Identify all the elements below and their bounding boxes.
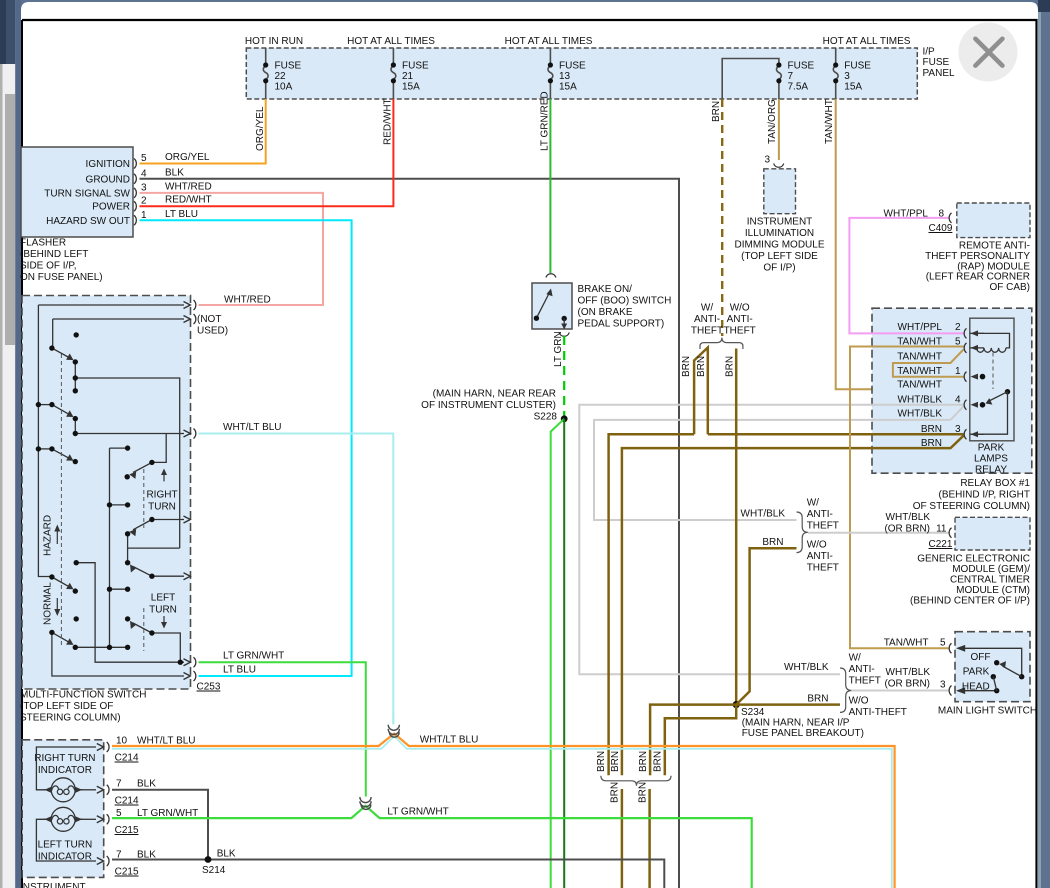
svg-text:BRN: BRN (681, 356, 692, 377)
svg-text:CENTRAL TIMER: CENTRAL TIMER (950, 574, 1030, 585)
left rail (38, 305, 52, 577)
svg-text:RIGHT: RIGHT (146, 490, 177, 501)
svg-text:TAN/WHT: TAN/WHT (824, 99, 835, 144)
svg-text:15A: 15A (559, 82, 577, 93)
lamp2 right lead to pin5 (81, 818, 96, 820)
inline connector chevrons WHT/LT BLU (388, 725, 399, 731)
generic electronic module (GEM) box (955, 517, 1030, 550)
svg-text:C221: C221 (929, 539, 953, 550)
GEM option brace (797, 512, 808, 553)
svg-text:11: 11 (936, 524, 947, 535)
svg-text:REMOTE ANTI-: REMOTE ANTI- (959, 241, 1030, 252)
main light switch option brace (840, 668, 851, 712)
svg-text:7: 7 (788, 71, 794, 82)
brake on/off (BOO) switch box (532, 283, 572, 329)
svg-text:ANTI-: ANTI- (807, 509, 833, 520)
svg-text:FUSE: FUSE (923, 57, 950, 68)
svg-text:C214: C214 (115, 796, 139, 807)
svg-text:(BEHIND I/P, RIGHT: (BEHIND I/P, RIGHT (939, 490, 1031, 501)
svg-text:RED/WHT: RED/WHT (165, 195, 212, 206)
wire RED/WHT flasher pin2 to fuse21 (140, 99, 394, 206)
wire WHT/LT BLU pale cyan shadow horizontal (112, 736, 892, 888)
svg-text:WHT/RED: WHT/RED (224, 295, 271, 306)
indicator pin arcs (107, 742, 109, 866)
svg-text:TAN/WHT: TAN/WHT (897, 352, 942, 363)
svg-text:RELAY BOX #1: RELAY BOX #1 (960, 478, 1030, 489)
svg-text:BRN: BRN (638, 751, 649, 772)
svg-text:BRAKE ON/: BRAKE ON/ (578, 284, 633, 295)
wire LT GRN/WHT bottom run (112, 806, 752, 888)
svg-text:WHT/BLK: WHT/BLK (886, 512, 931, 523)
svg-text:BRN: BRN (921, 438, 942, 449)
hazard contact arm 1 (52, 348, 69, 357)
svg-text:HEAD: HEAD (962, 682, 990, 693)
svg-text:INSTRUMENT: INSTRUMENT (20, 882, 86, 888)
svg-text:PARK: PARK (963, 667, 990, 678)
svg-text:BRN: BRN (807, 694, 828, 705)
svg-text:5: 5 (141, 153, 147, 164)
flasher box (21, 147, 133, 237)
wire BRN S234 left drop 2 (665, 705, 736, 776)
hazard arm 3 row (38, 448, 52, 450)
svg-text:BLK: BLK (217, 849, 236, 860)
svg-text:OF I/P): OF I/P) (763, 263, 795, 274)
wire BLK lamp1 to S214 (112, 790, 208, 860)
MFS mode dashed axes (61, 354, 143, 651)
wire DK GRN from S228 straight down (563, 419, 565, 888)
wire LT GRN dashed BOO to S228 (563, 336, 565, 419)
wire LT BLU flasher pin1 to MFS LT BLU pin (140, 220, 352, 676)
svg-text:ANTI-: ANTI- (849, 664, 875, 675)
svg-text:FUSE: FUSE (275, 61, 302, 72)
multi-function switch box (22, 296, 191, 690)
left scrollbar thumb (5, 94, 15, 345)
wire BRN dashed fuse7 feed down to anti-theft option brace (721, 99, 723, 336)
BOO top connector arc (546, 274, 556, 278)
svg-text:OFF: OFF (971, 652, 991, 663)
svg-text:2: 2 (141, 196, 147, 207)
svg-text:PEDAL SUPPORT): PEDAL SUPPORT) (578, 319, 665, 330)
svg-text:TAN/WHT: TAN/WHT (897, 366, 942, 377)
svg-text:GROUND: GROUND (86, 174, 130, 185)
wire LT GRN/RED fuse13 down to BOO switch (549, 99, 551, 273)
fuse F13 15A (548, 48, 553, 99)
svg-text:3: 3 (955, 424, 961, 435)
relay coil (970, 333, 1010, 348)
wire WHT/LT BLU orange highlight horizontal (112, 734, 895, 888)
svg-text:FUSE: FUSE (788, 61, 815, 72)
svg-text:2: 2 (955, 322, 961, 333)
svg-text:(LEFT REAR CORNER: (LEFT REAR CORNER (926, 272, 1030, 283)
svg-text:BRN: BRN (610, 782, 621, 803)
svg-text:FUSE: FUSE (402, 61, 429, 72)
svg-text:TAN/WHT: TAN/WHT (897, 380, 942, 391)
svg-text:(ON BRAKE: (ON BRAKE (578, 307, 633, 318)
wire BLK flasher pin4 ground, right then down full height (140, 179, 680, 888)
svg-text:BRN: BRN (711, 101, 722, 122)
svg-text:MODULE (CTM): MODULE (CTM) (956, 585, 1030, 596)
svg-text:PARK: PARK (978, 443, 1005, 454)
turn indicator cluster box (22, 740, 104, 878)
svg-text:FUSE PANEL BREAKOUT): FUSE PANEL BREAKOUT) (742, 728, 864, 739)
svg-text:3: 3 (940, 680, 946, 691)
svg-text:S228: S228 (534, 412, 558, 423)
svg-text:LT GRN/WHT: LT GRN/WHT (223, 651, 284, 662)
left slate band between scrollbar and modal (15, 0, 21, 888)
svg-text:ORG/YEL: ORG/YEL (165, 152, 210, 163)
svg-text:FUSE: FUSE (844, 61, 871, 72)
MFS contact dots (36, 332, 183, 665)
wire TAN/WHT fuse3 down and right to relay pin1 (836, 99, 964, 389)
svg-text:13: 13 (559, 71, 571, 82)
svg-text:WHT/LT BLU: WHT/LT BLU (420, 735, 479, 746)
relay box #1 dashed enclosure (872, 308, 1032, 473)
BOO bottom connector arc (559, 333, 569, 337)
svg-text:HOT AT ALL TIMES: HOT AT ALL TIMES (505, 36, 593, 47)
svg-text:(BEHIND LEFT: (BEHIND LEFT (20, 249, 88, 260)
right turn indicator lamp (51, 778, 75, 802)
svg-text:7: 7 (116, 779, 122, 790)
svg-text:WHT/BLK: WHT/BLK (784, 662, 829, 673)
svg-text:ANTI-: ANTI- (694, 314, 720, 325)
svg-text:HAZARD: HAZARD (43, 515, 54, 556)
hazard output to LT GRN/WHT pin (76, 563, 184, 663)
anti-theft option brace at BOO area (700, 338, 743, 349)
main light switch box (955, 632, 1030, 702)
wire WHT/BLK (OR BRN) brace to GEM pin 11 (808, 532, 949, 534)
dark top-left page corner (0, 0, 15, 64)
fuse F21 15A (391, 48, 396, 99)
svg-text:FLASHER: FLASHER (20, 238, 66, 249)
svg-text:MODULE (GEM)/: MODULE (GEM)/ (952, 564, 1030, 575)
svg-text:15A: 15A (402, 82, 420, 93)
svg-text:DIMMING MODULE: DIMMING MODULE (735, 240, 825, 251)
svg-text:THEFT: THEFT (807, 521, 839, 532)
svg-text:5: 5 (940, 638, 946, 649)
BOO lower contact with exit arrow (562, 316, 567, 321)
svg-text:(MAIN HARN, NEAR REAR: (MAIN HARN, NEAR REAR (433, 389, 556, 400)
svg-text:(BEHIND CENTER OF I/P): (BEHIND CENTER OF I/P) (910, 595, 1030, 606)
svg-text:TURN: TURN (148, 502, 176, 513)
fuse F3 15A (833, 48, 838, 99)
svg-text:(TOP LEFT SIDE: (TOP LEFT SIDE (741, 251, 818, 262)
svg-text:LT BLU: LT BLU (223, 665, 256, 676)
svg-text:SIDE OF I/P,: SIDE OF I/P, (20, 261, 77, 272)
svg-text:ON FUSE PANEL): ON FUSE PANEL) (20, 272, 103, 283)
svg-text:TURN: TURN (149, 605, 177, 616)
svg-text:LT GRN/RED: LT GRN/RED (540, 91, 551, 151)
wire BRN S234 up-right to brace feed rail (736, 548, 796, 704)
relay actuation dashed link (992, 353, 994, 390)
park lamps relay internal box (970, 318, 1014, 441)
hazard arm 2 row (38, 404, 52, 406)
svg-text:OF CAB): OF CAB) (989, 282, 1030, 293)
instrument illumination dimming module (774, 164, 784, 168)
svg-text:OF INSTRUMENT CLUSTER): OF INSTRUMENT CLUSTER) (421, 400, 556, 411)
wire TAN/ORG fuse7 to dimming module pin3 (778, 99, 780, 160)
svg-text:W/: W/ (849, 653, 861, 664)
svg-text:BRN: BRN (762, 537, 783, 548)
MFS pin arcs on right edge (194, 300, 196, 681)
svg-text:15A: 15A (844, 82, 862, 93)
fuse F22 10A (263, 48, 268, 99)
svg-text:BLK: BLK (137, 779, 156, 790)
relay pin arcs (964, 328, 966, 439)
wire WHT/BLK second gray to GEM brace (594, 420, 951, 520)
svg-text:USED): USED) (197, 326, 228, 337)
svg-text:INDICATOR: INDICATOR (38, 765, 92, 776)
wire TAN/WHT jumper pin5 to pin1 (893, 349, 964, 376)
svg-text:HAZARD SW OUT: HAZARD SW OUT (46, 216, 130, 227)
svg-text:S214: S214 (202, 865, 226, 876)
wire BRN S234 to main light switch brace (736, 703, 840, 706)
svg-text:STEERING COLUMN): STEERING COLUMN) (20, 713, 121, 724)
svg-text:LT BLU: LT BLU (165, 209, 198, 220)
svg-text:BLK: BLK (165, 167, 184, 178)
svg-text:BRN: BRN (610, 751, 621, 772)
wire to NOT USED pin (53, 318, 184, 320)
wire to WHT/RED pin (38, 304, 184, 306)
svg-text:BRN: BRN (921, 424, 942, 435)
svg-text:WHT/BLK: WHT/BLK (898, 395, 943, 406)
svg-text:ANTI-: ANTI- (807, 551, 833, 562)
svg-text:HOT AT ALL TIMES: HOT AT ALL TIMES (823, 36, 911, 47)
svg-text:ORG/YEL: ORG/YEL (255, 106, 266, 151)
indicator pin arrows at box edge (97, 744, 104, 865)
svg-text:HOT AT ALL TIMES: HOT AT ALL TIMES (347, 36, 435, 47)
wire BLK bottom run to right (112, 860, 664, 888)
wire WHT/BLK (OR BRN) brace to MLS pin 3 (851, 690, 948, 692)
svg-text:W/O: W/O (807, 540, 827, 551)
svg-text:WHT/RED: WHT/RED (165, 181, 212, 192)
wire WHT/BLK relay pin4 feed (upper gray loop) (579, 405, 963, 675)
splice S234 (733, 701, 740, 708)
svg-text:LT GRN: LT GRN (553, 331, 564, 367)
svg-text:C215: C215 (115, 825, 139, 836)
svg-text:WHT/BLK: WHT/BLK (741, 509, 786, 520)
MFS pin arrows at dashed edge (184, 302, 191, 680)
svg-text:BRN: BRN (725, 356, 736, 377)
svg-text:LT GRN/WHT: LT GRN/WHT (387, 807, 448, 818)
svg-text:RELAY: RELAY (975, 465, 1007, 476)
I/P fuse panel box (246, 48, 917, 99)
svg-text:(NOT: (NOT (197, 314, 221, 325)
svg-text:22: 22 (275, 71, 287, 82)
svg-text:3: 3 (844, 71, 850, 82)
left turn indicator lamp (51, 807, 75, 831)
svg-text:THEFT: THEFT (724, 326, 756, 337)
svg-text:W/O: W/O (730, 303, 750, 314)
svg-text:WHT/LT BLU: WHT/LT BLU (223, 422, 282, 433)
svg-text:IGNITION: IGNITION (86, 159, 130, 170)
svg-text:3: 3 (141, 182, 147, 193)
lamp1 right lead to pin7 (81, 789, 96, 791)
relay switch (980, 374, 986, 380)
svg-text:S234: S234 (741, 707, 765, 718)
svg-text:TURN SIGNAL SW: TURN SIGNAL SW (44, 188, 130, 199)
svg-text:BRN: BRN (653, 751, 664, 772)
svg-text:21: 21 (402, 71, 414, 82)
svg-text:4: 4 (955, 395, 961, 406)
wire BRN main run to relay pin3 (609, 434, 695, 775)
svg-text:3: 3 (764, 155, 770, 166)
flasher pin arcs (134, 159, 136, 226)
relay pin arrows (971, 330, 979, 437)
svg-text:ANTI-THEFT: ANTI-THEFT (849, 707, 907, 718)
wire BRN w/o anti-theft vertical to S234 (735, 349, 738, 705)
svg-text:MAIN LIGHT SWITCH: MAIN LIGHT SWITCH (938, 706, 1037, 717)
normal arm (52, 577, 69, 587)
svg-text:ILLUMINATION: ILLUMINATION (745, 228, 814, 239)
wire WHT/RED flasher pin3 to multi-function switch (140, 193, 324, 305)
svg-text:GENERIC ELECTRONIC: GENERIC ELECTRONIC (917, 553, 1030, 564)
svg-text:1: 1 (955, 366, 961, 377)
svg-text:THEFT: THEFT (807, 563, 839, 574)
MLS internals (956, 645, 965, 652)
svg-text:RIGHT TURN: RIGHT TURN (34, 753, 95, 764)
svg-text:WHT/BLK: WHT/BLK (898, 409, 943, 420)
svg-text:W/: W/ (807, 498, 819, 509)
svg-text:OF STEERING COLUMN): OF STEERING COLUMN) (913, 501, 1030, 512)
wire ORG/YEL flasher pin5 to fuse22 (140, 99, 266, 164)
wire BRN w/anti-theft loop (694, 348, 708, 435)
svg-text:WHT/BLK: WHT/BLK (886, 667, 931, 678)
svg-text:BRN: BRN (696, 356, 707, 377)
svg-text:BRN: BRN (596, 751, 607, 772)
svg-text:10: 10 (116, 736, 128, 747)
svg-text:TAN/ORG: TAN/ORG (767, 99, 778, 144)
wire WHT/PPL RAP to relay pin2 (849, 218, 963, 334)
svg-text:(TOP LEFT SIDE OF: (TOP LEFT SIDE OF (20, 701, 113, 712)
svg-text:LEFT TURN: LEFT TURN (38, 840, 93, 851)
wire LT GRN branch from S228 down left (551, 419, 565, 888)
left scrollbar track of underlying page (0, 0, 15, 888)
svg-text:ANTI-: ANTI- (727, 314, 753, 325)
normal bottom row (75, 646, 127, 648)
svg-text:(OR BRN): (OR BRN) (884, 524, 930, 535)
svg-text:POWER: POWER (92, 202, 130, 213)
right slate band (1038, 0, 1050, 888)
svg-text:THEFT: THEFT (691, 326, 723, 337)
svg-text:4: 4 (141, 168, 147, 179)
WHT/LT BLU output row (75, 433, 184, 435)
merge brace under BRN stubs (601, 776, 671, 786)
svg-text:LAMPS: LAMPS (974, 454, 1008, 465)
svg-text:BRN: BRN (638, 782, 649, 803)
svg-text:LEFT: LEFT (151, 593, 175, 604)
svg-text:(OR BRN): (OR BRN) (884, 679, 930, 690)
wire BRN S234 left drop 1 (650, 705, 736, 776)
dark top-right page corner (1038, 0, 1050, 12)
wire LT GRN/WHT from MFS down to inline connector (199, 662, 366, 796)
splice S228 (561, 415, 568, 422)
svg-text:PANEL: PANEL (923, 68, 955, 79)
svg-text:WHT/LT BLU: WHT/LT BLU (137, 736, 196, 747)
svg-text:THEFT: THEFT (849, 676, 881, 687)
close button (959, 23, 1018, 82)
wire TAN/WHT relay pin5 to main light switch pin5 (850, 347, 964, 649)
feed to x180 rail (75, 378, 179, 548)
fuse F7 7.5A with feed jog to BRN exit (722, 59, 781, 100)
MFS arm arrowheads (66, 354, 136, 645)
svg-text:W/: W/ (701, 303, 713, 314)
svg-text:C214: C214 (115, 753, 139, 764)
svg-text:MULTI-FUNCTION SWITCH: MULTI-FUNCTION SWITCH (20, 690, 146, 701)
contact chain under arm1 (74, 362, 76, 391)
svg-text:W/O: W/O (849, 696, 869, 707)
svg-text:7.5A: 7.5A (788, 82, 809, 93)
svg-text:TAN/WHT: TAN/WHT (884, 638, 929, 649)
svg-text:10A: 10A (275, 82, 293, 93)
svg-text:INSTRUMENT: INSTRUMENT (747, 217, 813, 228)
svg-text:C253: C253 (197, 682, 221, 693)
wire BRN second run to relay pin3 (622, 436, 964, 776)
lamp1 left lead up to pin10 (36, 747, 96, 790)
left-turn ladder (110, 588, 128, 590)
wire WHT/LT BLU from MFS down to inline connector (199, 434, 394, 725)
lamp2 left lead down to pin7 lower (36, 819, 96, 861)
svg-text:(MAIN HARN, NEAR I/P: (MAIN HARN, NEAR I/P (742, 718, 850, 729)
MFS internal wiring (38, 305, 184, 676)
svg-text:I/P: I/P (923, 47, 936, 58)
svg-text:NORMAL: NORMAL (43, 582, 54, 625)
splice S214 (205, 856, 212, 863)
svg-text:C409: C409 (929, 223, 953, 234)
svg-text:C215: C215 (115, 867, 139, 878)
svg-text:1: 1 (141, 210, 147, 221)
svg-text:OFF (BOO) SWITCH: OFF (BOO) SWITCH (578, 296, 672, 307)
remote anti-theft personality (RAP) module (957, 203, 1030, 238)
svg-text:FUSE: FUSE (559, 61, 586, 72)
svg-text:WHT/PPL: WHT/PPL (898, 322, 943, 333)
svg-text:HOT IN RUN: HOT IN RUN (245, 36, 303, 47)
svg-text:RED/WHT: RED/WHT (383, 98, 394, 145)
inline connector chevrons LT GRN/WHT (360, 797, 371, 803)
right-turn ladder (110, 447, 128, 449)
BOO switch arm (536, 293, 549, 319)
wire BRN merged pair down (621, 789, 624, 888)
